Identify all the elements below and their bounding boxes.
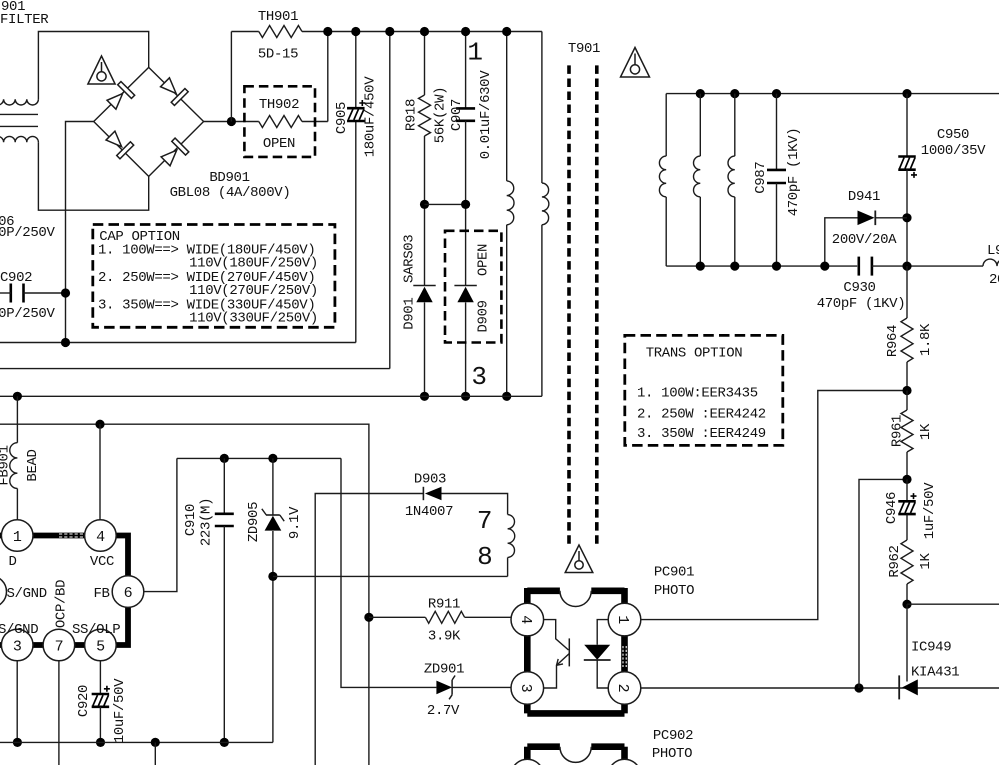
IC901 outline pin2-pin3 stub: [0, 642, 2, 648]
node ZD905 aux-return: [268, 572, 277, 581]
svg-text:180uF/450V: 180uF/450V: [363, 76, 379, 157]
svg-text:TRANS OPTION: TRANS OPTION: [646, 346, 743, 362]
PC902 box top edge: [527, 743, 624, 750]
wire bead top: [16, 396, 18, 442]
PC901 box left edge: [524, 588, 531, 713]
wire D901 anode down: [424, 302, 426, 396]
node winding1 bottom: [502, 392, 511, 401]
svg-text:7: 7: [477, 506, 492, 536]
IC901 outline pin3-pin7 bar: [33, 642, 44, 648]
PC902 pin circle left (cut): [511, 759, 544, 765]
PC901 box right edge: [621, 588, 628, 713]
svg-text:6: 6: [124, 585, 133, 602]
transformer T901 aux winding 7-8: [508, 515, 515, 558]
wire C905: [355, 32, 357, 109]
svg-text:3.9K: 3.9K: [428, 629, 461, 645]
svg-text:D901: D901: [402, 298, 418, 330]
wire riser TH901 left: [230, 32, 232, 122]
wire C950 top: [906, 94, 908, 157]
transformer T901 primary winding 1-3: [507, 181, 514, 225]
svg-text:110V(330UF/250V): 110V(330UF/250V): [189, 310, 318, 326]
wire R911 left: [369, 616, 426, 618]
svg-text:1K: 1K: [918, 553, 934, 570]
svg-text:2. 250W :EER4242: 2. 250W :EER4242: [637, 407, 766, 423]
warning symbol W3: [565, 545, 593, 573]
wire D909 anode down: [465, 302, 467, 396]
capacitor C910: [215, 512, 234, 515]
bridge diode upper-left: [105, 82, 135, 112]
IC901 pin 3 circle: [1, 629, 33, 661]
PC902 notch: [560, 747, 591, 763]
svg-text:S/GND: S/GND: [7, 586, 47, 602]
svg-text:56K(2W): 56K(2W): [433, 87, 449, 143]
svg-text:1000/35V: 1000/35V: [921, 143, 986, 159]
svg-text:7: 7: [55, 638, 64, 655]
capacitor C905 (electrolytic): [347, 107, 365, 110]
IC901 pin 5 circle: [85, 629, 117, 661]
inductor L950 (cut): [983, 259, 999, 266]
PC901 pin 2 circle: [608, 672, 641, 705]
transformer T901 secondary winding 2: [693, 156, 700, 197]
wire C987 bottom: [776, 183, 778, 266]
svg-text:3: 3: [13, 638, 22, 655]
svg-text:S/GND: S/GND: [0, 622, 38, 638]
bridge diode lower-left: [104, 129, 134, 159]
transformer T901 core line 2: [595, 65, 599, 543]
resistor R911: [425, 611, 464, 623]
svg-text:2.7V: 2.7V: [427, 703, 460, 719]
svg-text:1: 1: [467, 37, 482, 67]
svg-text:1N4007: 1N4007: [405, 504, 453, 520]
wire bead to pin1: [16, 489, 18, 521]
wire snubber tie: [425, 203, 466, 205]
wire gnd stub down: [154, 742, 156, 765]
svg-text:5: 5: [96, 638, 105, 655]
node gnd stub: [151, 738, 160, 747]
thermistor TH902: [259, 116, 302, 128]
line filter core lines: [0, 113, 38, 115]
svg-text:PHOTO: PHOTO: [652, 746, 692, 762]
wire pin7 down: [58, 660, 60, 765]
transformer T901 secondary winding 1: [659, 156, 666, 197]
node C987 bottom: [772, 262, 781, 271]
svg-text:R962: R962: [887, 545, 903, 577]
svg-text:OPEN: OPEN: [263, 136, 295, 152]
svg-text:8: 8: [477, 542, 492, 572]
PC901 box bottom edge: [527, 710, 624, 717]
svg-text:2200P/250V: 2200P/250V: [0, 306, 55, 322]
wire C987 top: [776, 94, 778, 170]
IC901 outline pin4-pin6 bend: [116, 536, 128, 577]
wire R911 to pin4: [465, 616, 512, 618]
wire C907 to D909: [465, 121, 467, 286]
wire winding B bottom: [541, 225, 543, 396]
svg-text:KIA431: KIA431: [911, 665, 959, 681]
svg-text:D909: D909: [476, 300, 492, 332]
wire TH902 right: [302, 121, 328, 123]
zener ZD901: [436, 681, 452, 695]
svg-text:TH901: TH901: [258, 9, 298, 25]
svg-text:R918: R918: [404, 99, 420, 131]
wire bus y396: [0, 395, 542, 397]
ferrite bead FB901: [10, 443, 18, 489]
node ZD905 top: [268, 454, 277, 463]
node C907 top: [461, 27, 470, 36]
svg-text:9.1V: 9.1V: [287, 506, 303, 539]
svg-text:PC902: PC902: [653, 728, 693, 744]
resistor R964: [901, 318, 913, 362]
transformer T901 secondary winding 3: [728, 156, 735, 197]
PC901 box top edge: [527, 587, 624, 594]
PC902 box left stub: [524, 747, 531, 760]
node pin2/C946 branch: [854, 683, 863, 692]
wire ZD901 to pin3: [452, 686, 511, 688]
line filter choke LF901 bottom winding: [0, 136, 38, 142]
wire pin5 down: [99, 660, 101, 694]
node DC- bus C902 branch: [61, 338, 70, 347]
svg-text:1: 1: [614, 615, 631, 624]
svg-text:SARS03: SARS03: [402, 235, 418, 283]
wire winding1 bottom: [506, 225, 508, 396]
wire winding B right: [541, 32, 543, 184]
svg-text:3: 3: [517, 684, 534, 693]
wire filter bottom to bridge bottom: [38, 142, 148, 210]
resistor R962: [901, 540, 913, 584]
svg-text:C950: C950: [937, 127, 969, 143]
node sec top w2: [696, 89, 705, 98]
node C930 out: [902, 262, 911, 271]
node C902 junction: [61, 288, 70, 297]
node C987 top: [772, 89, 781, 98]
svg-text:GBL08 (4A/800V): GBL08 (4A/800V): [170, 185, 291, 201]
node R918/C907 tie left: [420, 200, 429, 209]
IC901 pin 2 circle (cut): [0, 576, 7, 608]
svg-text:0.01uF/630V: 0.01uF/630V: [478, 70, 494, 160]
IC901 outline pin6-pin5 bend: [116, 607, 128, 645]
wire DC- bus y342: [0, 342, 356, 344]
wire aux winding top: [442, 494, 508, 515]
IC901 pin 6 circle: [112, 576, 144, 608]
svg-text:2: 2: [614, 684, 631, 693]
svg-text:R911: R911: [428, 597, 460, 613]
svg-text:4: 4: [96, 529, 105, 546]
PC901 pin 3 circle: [511, 672, 544, 705]
wire C930 right to L950: [872, 265, 983, 267]
wire ZD901 feed: [341, 458, 436, 687]
capacitor C930: [857, 257, 860, 276]
node R911 tap: [364, 613, 373, 622]
wire gnd bus: [0, 741, 273, 743]
node sec top w3: [730, 89, 739, 98]
node TH902 left junction: [227, 117, 236, 126]
svg-text:1K: 1K: [918, 423, 934, 440]
shunt regulator IC949 KIA431: [898, 675, 900, 699]
svg-text:470pF (1KV): 470pF (1KV): [817, 296, 906, 312]
wire aux return: [273, 575, 508, 577]
svg-text:10uF/50V: 10uF/50V: [112, 678, 128, 743]
svg-text:ZD901: ZD901: [424, 662, 464, 678]
wire C946 bottom: [906, 515, 908, 541]
node sec bot w2: [696, 262, 705, 271]
wire secondary winding1 bottom: [665, 197, 667, 266]
svg-text:C946: C946: [884, 492, 900, 524]
wire secondary top bus: [666, 93, 999, 95]
wire secondary winding2 bottom: [699, 197, 701, 266]
node bead bus: [13, 392, 22, 401]
wire C907 top: [465, 32, 467, 109]
diode D901: [413, 285, 435, 287]
zener ZD905: [266, 514, 280, 516]
node pin3 gnd: [13, 738, 22, 747]
wire FB left drop to pin6: [143, 458, 177, 591]
warning symbol W2: [621, 48, 650, 78]
PC902 box right stub: [621, 747, 628, 760]
PC901 LED: [597, 620, 608, 645]
PC901 phototransistor: [543, 620, 568, 650]
svg-text:OPEN: OPEN: [476, 244, 492, 276]
capacitor C902: [10, 284, 13, 303]
node C905 top: [351, 27, 360, 36]
svg-text:C910: C910: [183, 504, 199, 536]
svg-text:PC901: PC901: [654, 565, 694, 581]
node D909 bottom: [461, 392, 470, 401]
wire pin3 down: [16, 660, 18, 742]
wire R918 top: [424, 32, 426, 96]
bridge diode lower-right: [159, 138, 189, 168]
svg-text:223(M): 223(M): [199, 498, 215, 546]
PC901 pin 1 circle: [608, 603, 641, 636]
wire C910 bottom: [223, 526, 225, 742]
wire bridge right vertex: [204, 121, 259, 123]
dashed box TH902 OPEN: [244, 86, 315, 157]
svg-text:FB901: FB901: [0, 445, 13, 485]
node R962/ref junction: [902, 600, 911, 609]
svg-text:FB: FB: [93, 586, 109, 602]
diode D903: [422, 487, 424, 500]
wire ZD905 top: [272, 458, 274, 515]
svg-text:D: D: [8, 554, 16, 570]
svg-text:BD901: BD901: [209, 170, 249, 186]
svg-text:OCP/BD: OCP/BD: [54, 580, 70, 628]
svg-text:L950: L950: [987, 243, 999, 259]
node riser x390 top: [385, 27, 394, 36]
node top bus TH902 riser: [323, 27, 332, 36]
resistor R918: [419, 95, 431, 136]
PC902 pin circle right (cut): [608, 759, 641, 765]
svg-text:SS/OLP: SS/OLP: [72, 622, 120, 638]
node R964/R961 junction: [902, 386, 911, 395]
wire secondary winding3 bottom: [734, 197, 736, 266]
node D941 anode bus: [820, 262, 829, 271]
node R918 top: [420, 27, 429, 36]
node C920 gnd: [96, 738, 105, 747]
svg-text:1: 1: [13, 529, 22, 546]
node VCC tap: [95, 420, 104, 429]
svg-text:1uF/50V: 1uF/50V: [922, 482, 938, 539]
capacitor C950 (electrolytic): [898, 155, 916, 158]
transformer T901 core line 1: [567, 65, 571, 543]
wire ref out right: [907, 603, 999, 605]
bridge BD901 diamond: [94, 67, 204, 176]
IC901 pin 1 circle: [1, 520, 33, 552]
wire VCC to pin4: [99, 424, 101, 520]
svg-text:3. 350W :EER4249: 3. 350W :EER4249: [637, 426, 766, 442]
thermistor TH901: [259, 26, 302, 38]
svg-text:1. 100W:EER3435: 1. 100W:EER3435: [637, 386, 758, 402]
svg-text:1000P/250V: 1000P/250V: [0, 225, 55, 241]
svg-text:R964: R964: [885, 325, 901, 357]
svg-text:C907: C907: [449, 99, 465, 131]
wire aux winding bottom: [507, 558, 509, 577]
line filter choke LF901 top winding: [0, 99, 38, 105]
wire R961 bottom: [906, 452, 908, 479]
wire R962 bottom: [906, 584, 908, 604]
svg-text:R961: R961: [890, 415, 906, 447]
wire C910 top: [223, 458, 225, 513]
wire D903 cathode out: [315, 494, 423, 765]
wire FB bus y458: [177, 457, 341, 459]
node C910 top: [220, 454, 229, 463]
svg-text:ZD905: ZD905: [246, 502, 262, 542]
wire ref down to IC949: [906, 604, 908, 681]
svg-text:TH902: TH902: [259, 97, 299, 113]
node sec bot w3: [730, 262, 739, 271]
capacitor C920 (electrolytic): [92, 693, 110, 696]
svg-text:1.8K: 1.8K: [918, 323, 934, 356]
wire R918 to D901: [424, 136, 426, 286]
wire secondary winding3 top: [734, 94, 736, 157]
svg-text:110V(180UF/250V): 110V(180UF/250V): [189, 255, 318, 271]
svg-text:C920: C920: [76, 685, 92, 717]
wire secondary bottom bus: [666, 265, 857, 267]
resistor R961: [901, 410, 913, 452]
dashed box D909 OPEN: [445, 231, 501, 343]
wire C950 bottom: [906, 170, 908, 266]
IC901 pin 7 circle: [43, 629, 75, 661]
wire bus y368: [0, 368, 390, 370]
svg-text:BEAD: BEAD: [25, 449, 41, 481]
node D901 bottom: [420, 392, 429, 401]
capacitor C946 (electrolytic): [898, 500, 916, 503]
diode D941: [825, 218, 858, 266]
capacitor C907: [456, 107, 475, 110]
warning symbol W1: [88, 56, 115, 84]
svg-text:4: 4: [517, 615, 534, 624]
node D941 cathode: [902, 213, 911, 222]
dashed box TRANS OPTION: [625, 335, 783, 445]
wire pin2 out: [641, 687, 999, 689]
PC901 right edge stipple: [623, 646, 626, 667]
wire bus y424: [0, 424, 369, 765]
node C950 top: [902, 89, 911, 98]
IC901 pin 4 circle: [85, 520, 117, 552]
IC901 pin1-pin4 bar stipple: [59, 534, 85, 537]
svg-text:T901: T901: [568, 41, 600, 57]
wire ZD905 bottom: [272, 531, 274, 742]
wire filter top to bridge: [38, 32, 148, 100]
wire riser TH902 right: [327, 32, 329, 122]
capacitor C987: [767, 169, 786, 172]
wire C946 branch riser: [859, 479, 907, 688]
wire C946 top: [906, 479, 908, 501]
node C910 gnd: [220, 738, 229, 747]
PC901 pin 4 circle: [511, 603, 544, 636]
IC901 outline pin7-pin5 bar: [75, 642, 86, 648]
wire R964 bottom: [906, 362, 908, 391]
svg-text:C930: C930: [843, 280, 875, 296]
node C907 tie: [461, 200, 470, 209]
svg-text:200V/20A: 200V/20A: [832, 232, 897, 248]
wire riser x390: [389, 32, 391, 369]
wire secondary winding1: [665, 94, 667, 157]
wire R961 top: [906, 391, 908, 411]
svg-text:470pF (1KV): 470pF (1KV): [786, 128, 802, 217]
svg-text:FILTER: FILTER: [0, 12, 49, 28]
bridge diode upper-right: [158, 75, 188, 105]
PC901 notch: [560, 591, 591, 607]
node winding1 top: [502, 27, 511, 36]
wire secondary winding2 top: [699, 94, 701, 157]
wire bridge left vertex down: [66, 122, 94, 343]
dashed box CAP OPTION: [93, 225, 335, 328]
transformer T901 primary winding B: [542, 183, 549, 225]
IC901 outline pin1-pin4 bar: [33, 533, 86, 539]
svg-text:D941: D941: [848, 189, 880, 205]
svg-text:VCC: VCC: [90, 554, 114, 570]
svg-text:PHOTO: PHOTO: [654, 583, 694, 599]
svg-text:D903: D903: [414, 472, 446, 488]
svg-text:200uH: 200uH: [989, 272, 999, 288]
svg-text:C902: C902: [0, 270, 32, 286]
diode D909: [454, 285, 476, 287]
wire R964 top: [906, 266, 908, 318]
svg-text:IC949: IC949: [911, 640, 951, 656]
wire C920 bottom: [99, 707, 101, 743]
IC901 outline pin2-pin1 stub: [0, 533, 2, 539]
wire pin1 to divider: [641, 391, 907, 620]
svg-text:3: 3: [471, 362, 486, 392]
svg-text:C905: C905: [334, 102, 350, 134]
svg-text:5D-15: 5D-15: [258, 47, 298, 63]
node R961/C946 junction: [902, 475, 911, 484]
svg-text:C987: C987: [753, 162, 769, 194]
wire top bus: [302, 31, 542, 33]
wire winding1 top: [506, 32, 508, 181]
